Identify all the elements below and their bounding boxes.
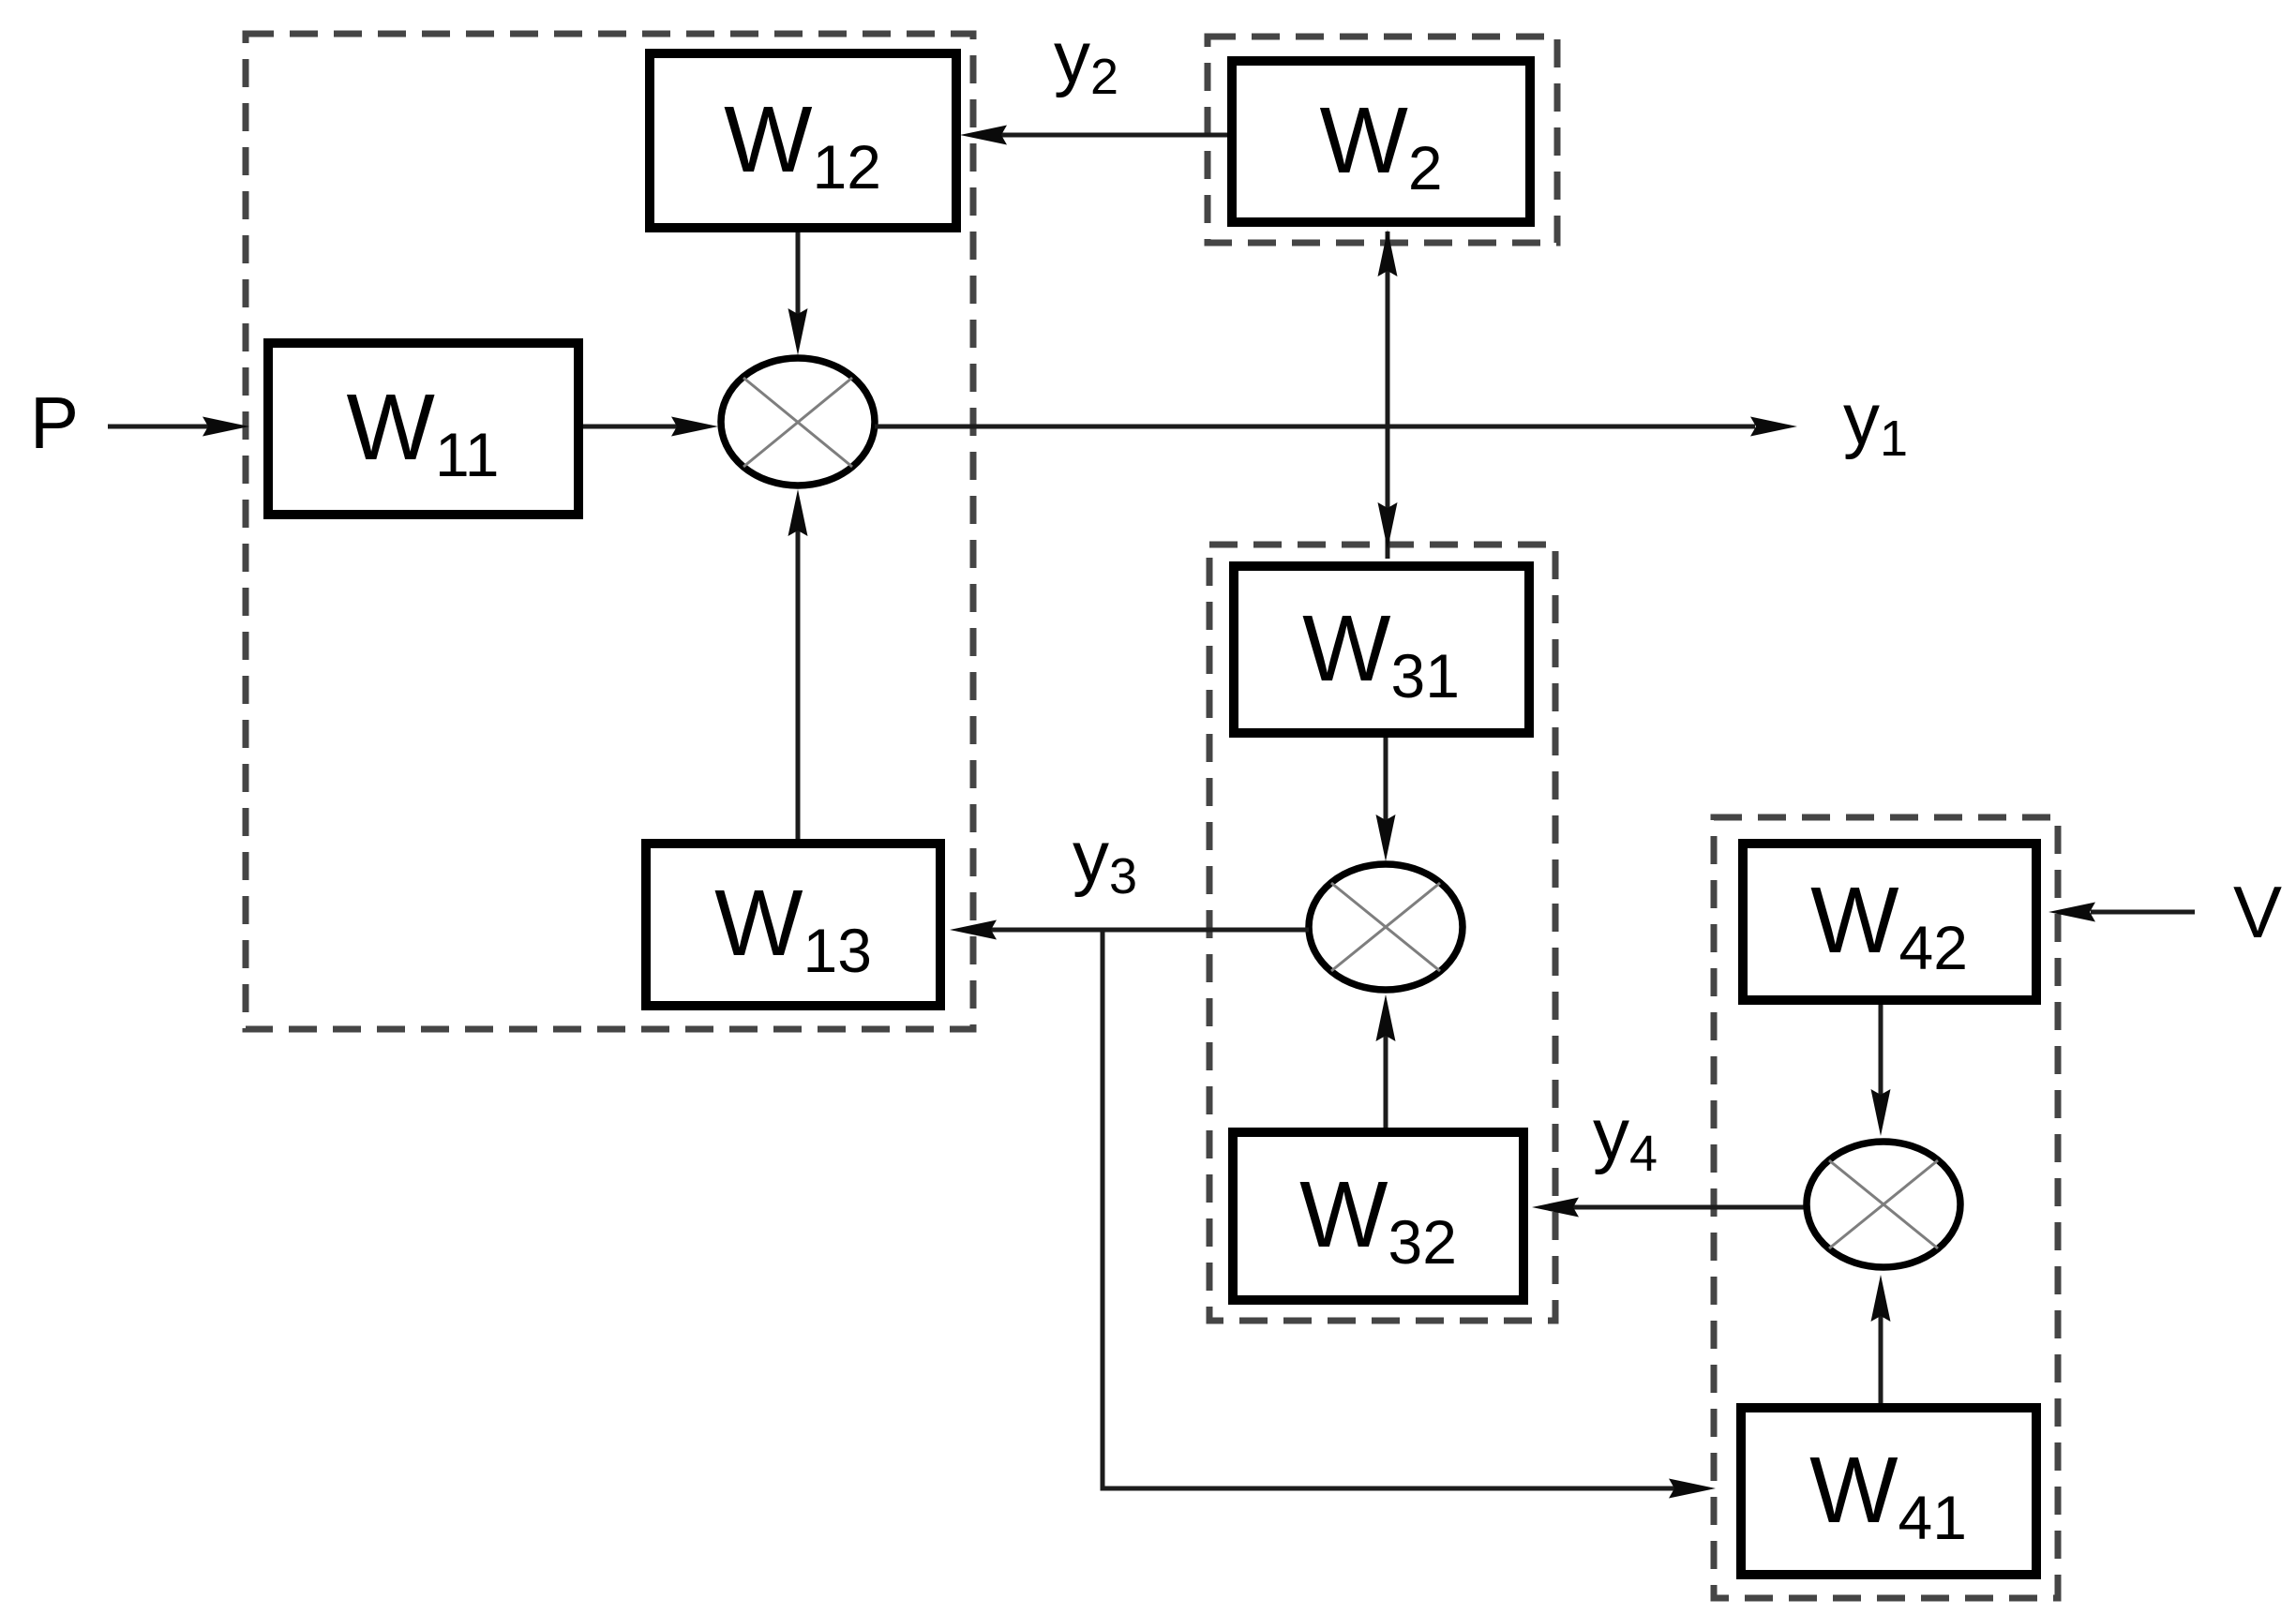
arrowhead into M1 xyxy=(671,417,718,437)
wire P input xyxy=(108,425,211,429)
arrowhead down into M2 top xyxy=(1376,814,1396,861)
arrowhead into W11 xyxy=(203,417,249,437)
arrowhead into W12 right xyxy=(960,126,1007,145)
multiplier M2 xyxy=(1309,864,1463,990)
block W13 xyxy=(646,844,940,1006)
arrowhead into W13 right xyxy=(950,920,997,940)
wire M1 to y1 output xyxy=(875,425,1755,429)
wire W11 to multiplier M1 xyxy=(583,425,680,429)
block W12 xyxy=(650,53,956,228)
arrowhead into W32 right xyxy=(1532,1198,1579,1218)
dashed group box G4 (W41/W42 subsystem) xyxy=(1714,817,2058,1598)
wire W42 down to M3 xyxy=(1879,1005,1883,1097)
block W11 xyxy=(268,343,578,515)
svg-text:P: P xyxy=(30,381,79,464)
arrowhead into W42 right xyxy=(2048,903,2095,922)
arrowhead y1 xyxy=(1750,417,1797,437)
block W42 xyxy=(1743,844,2036,1000)
block W32 xyxy=(1233,1132,1523,1300)
multiplier M1 xyxy=(721,358,875,486)
wire V input to W42 xyxy=(2091,910,2195,915)
wire double arrow W2 and W31 crossing y1 xyxy=(1386,232,1390,559)
wire y4 from M3 to W32 xyxy=(1572,1205,1807,1210)
arrowhead up into M1 bottom xyxy=(788,489,808,536)
svg-text:V: V xyxy=(2233,871,2282,953)
block W2 xyxy=(1232,61,1530,222)
wire y2 from W2 to W12 xyxy=(999,133,1227,138)
wire W13 up to M1 xyxy=(796,528,801,839)
dashed group box G1 (W11/W12/W13 subsystem) xyxy=(246,34,973,1029)
multiplier M3 xyxy=(1807,1142,1960,1267)
wire W31 down to M2 xyxy=(1384,738,1388,823)
dashed group box G2 (W2) xyxy=(1208,37,1557,243)
arrowhead up into M2 bottom xyxy=(1376,994,1396,1041)
wire W12 down to M1 xyxy=(796,232,801,317)
wire y3 from M2 to W13 xyxy=(990,928,1309,933)
block W41 xyxy=(1741,1408,2036,1575)
wire W41 up to M3 xyxy=(1879,1313,1883,1403)
block W31 xyxy=(1234,566,1529,733)
arrowhead up into M3 bottom xyxy=(1871,1275,1891,1322)
arrowhead into W41 left xyxy=(1669,1479,1716,1499)
arrowhead down into M3 top xyxy=(1871,1089,1891,1136)
arrowhead down into M1 top xyxy=(788,308,808,355)
wire branch from y3 down to W41 xyxy=(1103,930,1675,1488)
dashed group box G3 (W31/W32 subsystem) xyxy=(1209,545,1555,1321)
arrowhead down into W31 group xyxy=(1378,502,1398,549)
wire W32 up to M2 xyxy=(1384,1033,1388,1128)
arrowhead up into W2 bottom xyxy=(1378,230,1398,276)
